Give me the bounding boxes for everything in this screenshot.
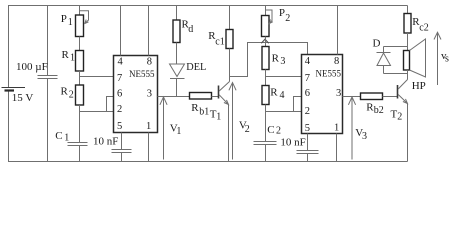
wire T1 emitter to ground [228, 105, 230, 162]
svg-text:R: R [191, 102, 199, 114]
capacitor C1 [68, 143, 88, 146]
transistor T2 [398, 80, 408, 104]
svg-text:6: 6 [305, 88, 310, 99]
label Rc1 [208, 30, 225, 48]
svg-text:D: D [373, 38, 381, 50]
wire C2 bottom lead [265, 145, 267, 162]
wire C2 top lead [265, 112, 267, 142]
svg-text:HP: HP [412, 80, 426, 92]
wire pin1 IC2 to ground [336, 134, 338, 162]
wire left rail upper [8, 6, 10, 88]
node arrow into P2 wiper [261, 39, 268, 43]
label IC1 pins [117, 57, 155, 132]
wire C1 bottom lead [79, 146, 81, 162]
wire 10nF to ground [121, 153, 123, 162]
wire Rc2 to speaker [407, 33, 409, 51]
svg-text:15 V: 15 V [12, 92, 34, 104]
wire Rc1 top lead [229, 6, 231, 30]
svg-text:10 nF: 10 nF [280, 136, 305, 148]
wire pin4 IC1 to rail [120, 6, 122, 56]
svg-text:1: 1 [176, 126, 181, 137]
label R1 [62, 49, 76, 64]
wire C1 top lead [79, 112, 81, 143]
wire Rb1 to T1 [212, 96, 219, 98]
label IC2 pins [305, 56, 342, 134]
wire R2 bottom to C1 node [79, 105, 81, 112]
svg-text:4: 4 [280, 90, 285, 101]
label T1 [210, 109, 222, 123]
diode DEL [170, 64, 185, 79]
wire pin3 IC2 to Rb2 [343, 96, 361, 98]
svg-text:R: R [270, 86, 278, 98]
label R3 [272, 53, 286, 68]
resistor R3 [262, 47, 269, 70]
svg-text:2: 2 [305, 106, 310, 117]
wire R1 to R2 [79, 71, 81, 85]
wire pin5 IC1 down [121, 133, 123, 150]
label Rb2 [366, 102, 384, 117]
svg-text:2: 2 [69, 90, 74, 101]
svg-text:1: 1 [64, 133, 69, 144]
svg-text:P: P [61, 13, 67, 25]
label C2 [267, 124, 281, 137]
wire bottom ground rail [8, 161, 408, 163]
resistor R4 [262, 86, 269, 105]
wire 100uF rail lower [47, 79, 49, 162]
svg-text:5: 5 [117, 121, 122, 132]
svg-text:1: 1 [68, 17, 73, 28]
svg-text:1: 1 [146, 121, 151, 132]
wire pin2 IC2 [266, 111, 302, 113]
diode D [377, 47, 391, 74]
wire T2 emitter to ground [407, 104, 409, 162]
wire P1 to R1 [79, 37, 81, 51]
wire pin6 IC2 step [294, 97, 302, 112]
svg-text:P: P [279, 7, 285, 19]
capacitor 10nF pin5 IC2 [297, 151, 319, 154]
svg-text:4: 4 [305, 56, 311, 67]
label V1 [170, 123, 182, 138]
battery 15 V [2, 88, 26, 91]
svg-text:1: 1 [70, 53, 75, 64]
svg-text:b2: b2 [374, 105, 384, 116]
wire pin8 IC2 to rail [337, 6, 339, 55]
label R4 [270, 86, 284, 101]
svg-text:DEL: DEL [186, 62, 206, 73]
label V2 [239, 120, 250, 136]
potentiometer P1 [76, 11, 89, 37]
wire top rail corner to Rc2 [407, 6, 409, 14]
label P2 [279, 7, 290, 24]
svg-text:7: 7 [305, 73, 310, 84]
wire pin1 IC1 to ground [148, 133, 150, 162]
wire P2 bottom lead [265, 37, 267, 43]
svg-text:NE555: NE555 [129, 69, 155, 79]
capacitor C2 [254, 142, 277, 145]
svg-text:8: 8 [334, 56, 339, 67]
svg-text:4: 4 [118, 57, 124, 68]
wire R3 top lead [265, 43, 267, 47]
resistor R2 [76, 85, 84, 105]
wire Rd top lead [176, 6, 178, 21]
resistor Rc2 [404, 14, 411, 34]
label C1 [55, 130, 69, 144]
wire 100uF rail upper [47, 6, 49, 76]
node vs arrow [434, 32, 441, 85]
svg-text:C: C [267, 124, 274, 136]
wire Rd to DEL [176, 43, 178, 65]
wire pin8 IC1 to rail [148, 6, 150, 56]
resistor Rb1 [190, 93, 212, 100]
wire diode top link [384, 46, 408, 48]
label T2 [391, 109, 403, 123]
capacitor 100uF [38, 76, 58, 79]
wire P1 top lead [79, 6, 81, 16]
wire left rail lower [8, 91, 10, 162]
wire DEL to output node [176, 79, 178, 97]
wire T1 collector [229, 49, 231, 82]
svg-text:100 µF: 100 µF [16, 61, 48, 73]
svg-text:8: 8 [147, 57, 152, 68]
op-amp U2 NE555 box [302, 55, 343, 134]
svg-text:c1: c1 [215, 37, 224, 48]
wire R4 bottom to C2 node [265, 105, 267, 112]
wire diode bottom link [384, 73, 408, 75]
label V3 [355, 127, 367, 142]
svg-text:R: R [62, 49, 70, 61]
svg-text:2: 2 [245, 124, 250, 135]
svg-text:R: R [61, 86, 69, 98]
label P1 [61, 13, 73, 28]
resistor R1 [76, 51, 84, 72]
svg-text:3: 3 [362, 131, 367, 142]
svg-text:6: 6 [117, 88, 122, 99]
svg-text:3: 3 [147, 88, 152, 99]
svg-text:2: 2 [276, 126, 281, 137]
svg-text:C: C [55, 130, 62, 142]
wire Rb2 to T2 [383, 96, 398, 98]
svg-text:NE555: NE555 [316, 69, 342, 79]
wire speaker to T2 collector [407, 70, 409, 80]
label R2 [61, 86, 74, 101]
speaker HP [404, 39, 426, 77]
label vs [441, 50, 449, 65]
svg-text:s: s [445, 54, 449, 65]
svg-text:5: 5 [305, 123, 310, 134]
svg-text:d: d [188, 24, 193, 35]
label Rd [182, 19, 194, 36]
wire 10nF 2 to ground [307, 154, 309, 162]
label Rb1 [191, 102, 209, 118]
wire R3 to R4 [265, 70, 267, 86]
wire pin7 IC2 [266, 76, 302, 78]
op-amp U1 NE555 box [114, 56, 158, 133]
wire top supply rail [8, 5, 408, 7]
capacitor 10nF pin5 IC1 [112, 150, 132, 153]
node V2 arrow [229, 83, 236, 160]
wire pin5 IC2 down [307, 134, 309, 151]
label Rc2 [412, 16, 429, 34]
wire T1 collector to P2 node [230, 43, 308, 77]
resistor Rc1 [226, 30, 233, 49]
svg-text:b1: b1 [199, 107, 209, 118]
node V1 arrow [160, 97, 167, 160]
svg-text:3: 3 [280, 56, 285, 67]
wire P2 top lead [265, 6, 267, 16]
wire pin2 IC1 [80, 111, 114, 113]
svg-text:1: 1 [334, 123, 339, 134]
wire pin7 IC1 [80, 76, 114, 78]
resistor Rb2 [361, 93, 383, 100]
transistor T1 [219, 82, 230, 105]
wire pin6 IC1 step [107, 97, 114, 112]
svg-text:2: 2 [117, 104, 122, 115]
svg-text:R: R [272, 53, 280, 65]
svg-text:10 nF: 10 nF [93, 136, 118, 148]
svg-text:2: 2 [397, 112, 402, 123]
svg-text:7: 7 [117, 73, 122, 84]
wire pin3 IC1 to T1 base [158, 96, 190, 98]
resistor Rd [173, 20, 180, 43]
svg-text:c2: c2 [419, 23, 428, 34]
svg-text:3: 3 [336, 88, 341, 99]
potentiometer P2 [262, 10, 273, 37]
node V3 arrow [348, 97, 355, 160]
svg-text:2: 2 [285, 13, 290, 24]
svg-text:1: 1 [216, 112, 221, 123]
